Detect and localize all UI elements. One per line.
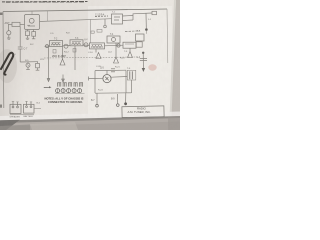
svg-text:BATTERY: BATTERY <box>24 115 34 118</box>
svg-text:VOL: VOL <box>40 59 45 61</box>
svg-text:C-12 R-4: C-12 R-4 <box>95 15 105 17</box>
svg-text:R-24: R-24 <box>98 90 104 92</box>
svg-text:ANT: ANT <box>5 21 11 25</box>
svg-text:A.M. TUNER, INC.: A.M. TUNER, INC. <box>128 110 151 114</box>
svg-text:C-7: C-7 <box>24 48 29 51</box>
svg-text:NOTES: ALL V OF CHASSIS IS: NOTES: ALL V OF CHASSIS IS <box>45 96 84 100</box>
svg-text:R-12: R-12 <box>64 52 70 54</box>
svg-text:C-16: C-16 <box>88 52 94 54</box>
svg-text:2ND IF AMP: 2ND IF AMP <box>52 55 66 58</box>
svg-text:SPEAKER: SPEAKER <box>10 115 21 118</box>
svg-text:CONNECTED TO GROUND.: CONNECTED TO GROUND. <box>48 100 83 104</box>
svg-text:R-21: R-21 <box>115 67 121 69</box>
svg-text:R-18: R-18 <box>120 58 126 60</box>
